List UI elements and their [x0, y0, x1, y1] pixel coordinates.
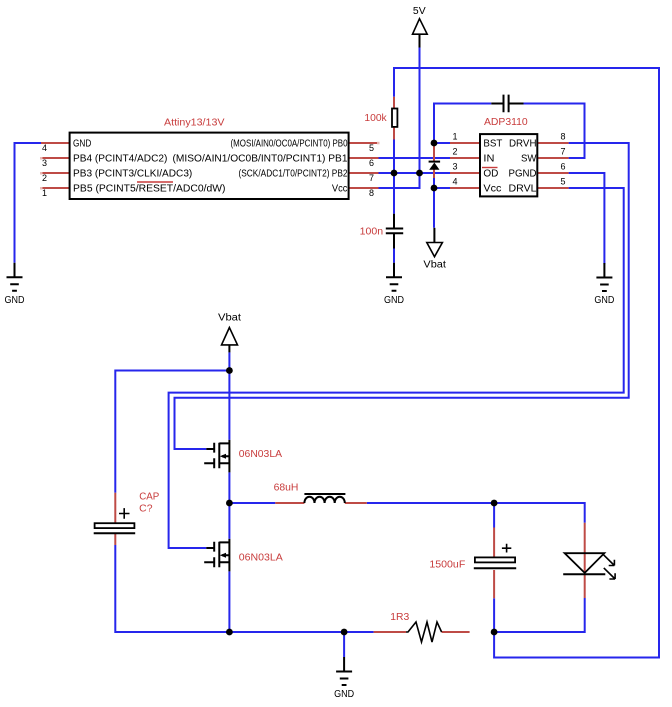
svg-text:DRVH: DRVH: [509, 139, 537, 150]
svg-text:3: 3: [452, 162, 457, 172]
svg-text:3: 3: [42, 158, 47, 168]
svg-text:(MOSI/AIN0/OC0A/PCINT0) PB0: (MOSI/AIN0/OC0A/PCINT0) PB0: [231, 139, 348, 150]
svg-text:Vbat: Vbat: [423, 260, 446, 271]
svg-text:4: 4: [452, 177, 457, 187]
svg-text:Vbat: Vbat: [218, 313, 241, 324]
svg-text:5: 5: [369, 143, 374, 153]
svg-text:SW: SW: [521, 154, 537, 165]
svg-text:100k: 100k: [364, 113, 387, 124]
svg-text:8: 8: [369, 188, 374, 198]
svg-text:8: 8: [560, 132, 565, 142]
svg-text:6: 6: [369, 158, 374, 168]
svg-text:DRVL: DRVL: [509, 184, 537, 195]
svg-text:ADP3110: ADP3110: [484, 117, 528, 128]
svg-text:PGND: PGND: [509, 169, 537, 180]
svg-text:06N03LA: 06N03LA: [239, 449, 282, 460]
svg-text:2: 2: [452, 147, 457, 157]
svg-text:(MISO/AIN1/OC0B/INT0/PCINT1) P: (MISO/AIN1/OC0B/INT0/PCINT1) PB1: [173, 154, 348, 165]
svg-text:6: 6: [560, 162, 565, 172]
svg-text:06N03LA: 06N03LA: [239, 553, 283, 564]
svg-text:1500uF: 1500uF: [429, 559, 465, 570]
svg-text:5: 5: [560, 177, 565, 187]
svg-text:68uH: 68uH: [274, 483, 299, 494]
svg-text:7: 7: [560, 147, 565, 157]
svg-text:(SCK/ADC1/T0/PCINT2) PB2: (SCK/ADC1/T0/PCINT2) PB2: [239, 169, 348, 180]
svg-text:Vcc: Vcc: [483, 184, 501, 195]
svg-text:GND: GND: [73, 139, 91, 150]
svg-text:BST: BST: [483, 139, 502, 150]
svg-text:CAP: CAP: [139, 492, 159, 503]
svg-text:Attiny13/13V: Attiny13/13V: [164, 118, 225, 129]
svg-text:1: 1: [42, 188, 47, 198]
svg-text:7: 7: [369, 173, 374, 183]
svg-text:1R3: 1R3: [390, 612, 409, 623]
svg-text:IN: IN: [483, 154, 494, 165]
svg-text:5V: 5V: [413, 6, 426, 17]
svg-text:OD: OD: [483, 169, 498, 180]
svg-text:PB5 (PCINT5/RESET/ADC0/dW): PB5 (PCINT5/RESET/ADC0/dW): [73, 184, 226, 195]
svg-text:C?: C?: [139, 504, 153, 515]
svg-text:1: 1: [452, 132, 457, 142]
svg-text:PB3 (PCINT3/CLKI/ADC3): PB3 (PCINT3/CLKI/ADC3): [73, 169, 192, 180]
svg-text:4: 4: [42, 143, 47, 153]
svg-text:2: 2: [42, 173, 47, 183]
svg-text:PB4 (PCINT4/ADC2): PB4 (PCINT4/ADC2): [73, 154, 167, 165]
svg-text:Vcc: Vcc: [332, 184, 348, 195]
svg-text:100n: 100n: [360, 227, 383, 238]
